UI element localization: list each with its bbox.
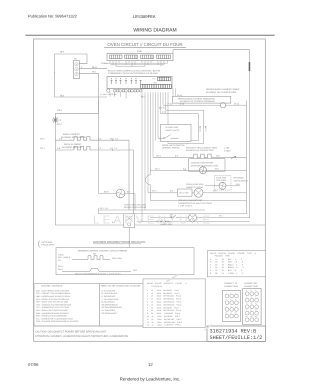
svg-text:OFF (±5%): OFF (±5%) bbox=[112, 257, 122, 260]
cooling fan box (dashed) bbox=[215, 176, 232, 191]
wire from arc to right bus bbox=[151, 185, 247, 201]
bottom bus y225 bbox=[55, 224, 265, 226]
vent fan wires bbox=[99, 194, 135, 211]
svg-text:BAKE ELEMENT: BAKE ELEMENT bbox=[63, 133, 80, 136]
svg-text:ELEMENT DE CUISSON 240V: ELEMENT DE CUISSON 240V bbox=[206, 91, 237, 94]
svg-text:07/06: 07/06 bbox=[28, 362, 39, 367]
svg-text:TOP MILD THERMOSTAT: TOP MILD THERMOSTAT bbox=[178, 199, 203, 202]
svg-text:G: G bbox=[60, 119, 62, 122]
connector grid P1A bbox=[223, 291, 241, 322]
P1B pin group 2 bbox=[125, 55, 138, 59]
EOC board bbox=[107, 76, 172, 88]
EOC output wire bundle bbox=[110, 88, 176, 221]
wire TB mid to EOC bbox=[79, 67, 107, 69]
svg-text:OVEN VENT FAN 120V: OVEN VENT FAN 120V bbox=[124, 203, 147, 206]
svg-text:ELEMENT DE CONVECTION: ELEMENT DE CONVECTION bbox=[186, 149, 214, 152]
svg-text:P1B-1: P1B-1 bbox=[101, 62, 107, 65]
wire color code box bbox=[99, 284, 143, 326]
svg-text:COOL FAN: COOL FAN bbox=[216, 177, 227, 180]
convection motor M1 bbox=[199, 167, 206, 174]
svg-text:BK-17: BK-17 bbox=[204, 126, 207, 132]
convection element coil bbox=[153, 154, 247, 159]
header rule bbox=[25, 34, 274, 36]
oven circuit title underline bbox=[104, 46, 186, 48]
svg-text:W-4 1-4: W-4 1-4 bbox=[110, 137, 119, 140]
svg-text:WARMER DRAWER/TIROIR RECHAUD: WARMER DRAWER/TIROIR RECHAUD bbox=[93, 240, 145, 244]
svg-text:GR GREEN/VERT: GR GREEN/VERT bbox=[102, 312, 118, 315]
svg-text:EOC - ELECTRONIC OVEN CONTROL: EOC - ELECTRONIC OVEN CONTROL bbox=[36, 289, 70, 292]
bus y221.6 bbox=[137, 221, 250, 223]
svg-text:2 16 18 W: 2 16 18 WHT B 2 bbox=[210, 261, 243, 264]
P1B pin group 4 bbox=[157, 55, 171, 59]
svg-text:ON AT 22 PCT/MARCHE A 22 PCT: ON AT 22 PCT/MARCHE A 22 PCT L 170 E (77… bbox=[75, 272, 121, 275]
svg-text:9 30 16GA Y GR/: 9 30 16GA Y GR/VERT P1A-9 bbox=[147, 312, 180, 315]
svg-text:WDE - WARMER DRAWER ELEMENT: WDE - WARMER DRAWER ELEMENT bbox=[36, 312, 70, 315]
wire P1B right to right bus bbox=[173, 50, 250, 218]
right bus second line bbox=[246, 101, 248, 214]
svg-text:6 20 18GA RED/R: 6 20 18GA RED/ROUGE P1A-6 bbox=[147, 303, 181, 306]
svg-text:CONNECT P1: CONNECT P1 bbox=[224, 282, 238, 285]
bake element coil 1 bbox=[74, 137, 90, 141]
svg-text:VENTILATEUR: VENTILATEUR bbox=[234, 179, 249, 182]
svg-text:LAMPE DU FOUR: LAMPE DU FOUR bbox=[186, 186, 204, 189]
svg-text:4 24 16 B: 4 24 16 BRN B D 4 bbox=[210, 266, 243, 269]
TB circle 3 bbox=[75, 72, 78, 75]
wire broil element 2 bbox=[55, 150, 133, 214]
svg-text:11 36 14GA WHT/B: 11 36 14GA WHT/BLANC P1B-2 bbox=[147, 318, 181, 321]
wire bake element 1 bbox=[55, 140, 129, 210]
svg-text:WA NO. COLOR GAUGE/TY: WA NO. COLOR GAUGE/TY COLOR A bbox=[147, 282, 187, 285]
waveform row 1 bbox=[72, 256, 110, 260]
svg-text:BL BLUE/BLEU: BL BLUE/BLEU bbox=[102, 301, 116, 304]
svg-text:TMT - THERMOSTAT HAUT DU FOUR: TMT - THERMOSTAT HAUT DU FOUR bbox=[36, 306, 70, 309]
svg-text:CAUTION: DISCONNECT POWER BEFO: CAUTION: DISCONNECT POWER BEFORE SERVICI… bbox=[35, 330, 107, 333]
svg-text:W-1 4-1: W-1 4-1 bbox=[100, 207, 109, 210]
svg-text:4-5: 4-5 bbox=[170, 190, 174, 193]
svg-text:LIMITE HAUTE: LIMITE HAUTE bbox=[166, 129, 180, 132]
svg-text:12: 12 bbox=[148, 362, 153, 367]
svg-text:Y YELLOW/JAUNE: Y YELLOW/JAUNE bbox=[102, 298, 120, 301]
svg-text:3 16 18GA WHT/B: 3 16 18GA WHT/BLANC P1A-3 bbox=[147, 295, 181, 298]
svg-text:OPTIONAL: OPTIONAL bbox=[234, 177, 245, 180]
optional brace bbox=[38, 241, 40, 248]
svg-text:316271934 REV:B: 316271934 REV:B bbox=[210, 329, 257, 335]
watermark slash 1 bbox=[166, 275, 178, 283]
wire TB bottom down right rail bbox=[79, 73, 99, 113]
svg-text:2: 2 bbox=[54, 72, 55, 75]
svg-text:W.E. (+5%) E: W.E. (+5%) E bbox=[58, 256, 71, 259]
svg-text:H ELE: H ELE bbox=[58, 254, 64, 257]
svg-text:LEGEND / LEGENDE: LEGEND / LEGENDE bbox=[41, 284, 63, 287]
sheet info box bbox=[207, 326, 266, 341]
wire hidden bake bbox=[163, 104, 247, 106]
svg-text:BK-15: BK-15 bbox=[199, 126, 202, 132]
svg-text:RELAIS VENTILATEUR: RELAIS VENTILATEUR bbox=[124, 206, 147, 209]
svg-text:LO: LO bbox=[58, 259, 61, 262]
svg-text:Rly B: Rly B bbox=[58, 268, 63, 271]
svg-text:8 24 16GA WHT/B: 8 24 16GA WHT/BLANC P1A-8 bbox=[147, 309, 181, 312]
legend band bottom rule bbox=[34, 325, 143, 327]
svg-text:THERMOSTAT DE HAUT DU FOUR: THERMOSTAT DE HAUT DU FOUR bbox=[178, 202, 212, 205]
warmer drawer box bbox=[56, 248, 194, 275]
svg-text:POUCES GA: POUCES GA bbox=[147, 285, 163, 288]
svg-text:W.E.L.: W.E.L. bbox=[58, 265, 64, 268]
svg-text:HIDDEN BAKE ELEMENT 2585/2225W: HIDDEN BAKE ELEMENT 2585/2225W bbox=[178, 97, 215, 100]
svg-text:HIDDEN BAKE ELEMENT 2585W: HIDDEN BAKE ELEMENT 2585W bbox=[206, 88, 240, 91]
svg-text:WIRE COLOR CODE/CODE COULEUR: WIRE COLOR CODE/CODE COULEUR bbox=[101, 284, 141, 287]
wire gauge table right bbox=[208, 251, 266, 277]
P1B pin group 3 bbox=[141, 55, 154, 59]
svg-text:DLS - DOOR LATCH SWITCH/RELAIS: DLS - DOOR LATCH SWITCH/RELAIS bbox=[36, 298, 70, 301]
hidden bake element label box bbox=[172, 96, 231, 103]
svg-text:CFE - CONVECT FAN ELEMENT/RELA: CFE - CONVECT FAN ELEMENT/RELAY bbox=[36, 292, 72, 295]
svg-text:GY GRAY/GRIS: GY GRAY/GRIS bbox=[102, 309, 116, 312]
svg-text:OV-2: OV-2 bbox=[152, 190, 157, 193]
svg-text:4 16 18GA WHT/B: 4 16 18GA WHT/BLANC P1A-4 bbox=[147, 298, 181, 301]
wire junction arrow bbox=[231, 156, 236, 158]
svg-text:ELEMENT DE CUISSON DISSIMULE: ELEMENT DE CUISSON DISSIMULE bbox=[180, 100, 216, 103]
waveform row 2 bbox=[62, 268, 131, 271]
oven vent fan motor bbox=[116, 189, 125, 198]
hi-limit switch contact bbox=[165, 135, 179, 139]
svg-text:ELEMENT DE CUISSON: ELEMENT DE CUISSON bbox=[61, 136, 86, 139]
svg-text:B BLACK/NOIR: B BLACK/NOIR bbox=[102, 289, 116, 292]
svg-text:BROIL ELEMENT: BROIL ELEMENT bbox=[64, 143, 82, 146]
low oven lamp bbox=[189, 214, 197, 222]
svg-text:WIRING DIAGRAM: WIRING DIAGRAM bbox=[133, 28, 176, 34]
svg-text:6 36 14 Y: 6 36 14 Y GRN F 6 bbox=[210, 272, 243, 275]
svg-text:OR ORANGE/ORANGE: OR ORANGE/ORANGE bbox=[102, 306, 123, 309]
svg-text:12 36 14GA RED/R: 12 36 14GA RED/ROUGE P1B-3 bbox=[147, 321, 182, 324]
svg-text:ELECT OVEN CONTROL (EOC) OVEN: ELECT OVEN CONTROL (EOC) OVEN REL. BD P/… bbox=[108, 70, 160, 73]
svg-text:TB-3: TB-3 bbox=[60, 51, 66, 54]
svg-text:13 42 14GA Y GR/: 13 42 14GA Y GR/VERT P1B-4 bbox=[147, 324, 181, 327]
svg-text:OVEN CIRCUIT // CIRCUIT DU FOU: OVEN CIRCUIT // CIRCUIT DU FOUR bbox=[107, 42, 182, 47]
svg-text:R RED/ROUGE: R RED/ROUGE bbox=[102, 295, 117, 298]
bus y210 bbox=[99, 209, 205, 211]
thermostat wire bbox=[150, 217, 250, 219]
EOC relay coils bbox=[110, 80, 141, 84]
harness loop arc bbox=[146, 175, 151, 185]
right drop wires x198/x203 bbox=[161, 110, 204, 143]
svg-text:CFM - COOLING FAN MOTOR/MOTEUR: CFM - COOLING FAN MOTOR/MOTEUR bbox=[36, 303, 72, 306]
svg-text:5 30 16 B: 5 30 16 BLU E 5 bbox=[210, 269, 242, 272]
legend entries bbox=[36, 289, 79, 323]
svg-text:CONNECTOR: CONNECTOR bbox=[244, 282, 257, 285]
svg-text:BR BROWN/BRUN: BR BROWN/BRUN bbox=[102, 303, 119, 306]
hi-limit thermostat box bbox=[161, 125, 192, 142]
svg-text:R-2 1-2: R-2 1-2 bbox=[110, 147, 118, 150]
svg-text:L 240: L 240 bbox=[224, 147, 230, 150]
svg-text:HBE - HIDDEN BAKE ELEMENT RELA: HBE - HIDDEN BAKE ELEMENT RELAY bbox=[36, 295, 71, 298]
svg-text:BK-1: BK-1 bbox=[141, 95, 146, 98]
svg-text:W WHITE/BLANC: W WHITE/BLANC bbox=[102, 292, 118, 295]
svg-text:DOOR LATCH SWITCH: DOOR LATCH SWITCH bbox=[162, 144, 185, 147]
svg-text:LEADVENTURE: LEADVENTURE bbox=[93, 215, 213, 227]
svg-text:TB: TB bbox=[74, 57, 77, 60]
oven light lamp bbox=[194, 188, 203, 197]
svg-text:1 14 18 B: 1 14 18 BLK A 1 bbox=[210, 258, 242, 261]
legend box left bbox=[34, 284, 99, 326]
svg-text:TBK - TERMINAL BLOCK/BORNIER: TBK - TERMINAL BLOCK/BORNIER bbox=[36, 315, 68, 318]
svg-text:Publication No: 5995471322: Publication No: 5995471322 bbox=[28, 14, 77, 19]
wire TB feed top bbox=[55, 54, 88, 97]
svg-text:WARMER DRAWER CONTROL CIRCUIT/: WARMER DRAWER CONTROL CIRCUIT/TIMING bbox=[78, 249, 127, 252]
svg-text:Rendered by LeadVenture, Inc.: Rendered by LeadVenture, Inc. bbox=[120, 376, 181, 381]
svg-text:P1B: P1B bbox=[137, 50, 142, 53]
svg-text:COMMANDE FOUR ELECTRONIQUE DE: COMMANDE FOUR ELECTRONIQUE DE RELAIS bbox=[108, 72, 158, 75]
hidden bake element circle bbox=[220, 103, 225, 108]
convection motor label box bbox=[189, 159, 225, 172]
svg-text:VERROU. PORTE: VERROU. PORTE bbox=[162, 147, 180, 150]
door light switch box with X bbox=[124, 214, 135, 228]
svg-text:10 30 14GA BLK/N: 10 30 14GA BLK/NOIR P1B-1 bbox=[147, 315, 180, 318]
svg-text:GR-2: GR-2 bbox=[57, 123, 63, 126]
P1B pin group 1 bbox=[110, 55, 171, 59]
svg-text:ELEMENT DU GRIL: ELEMENT DU GRIL bbox=[62, 146, 83, 149]
svg-text:GR-1: GR-1 bbox=[57, 109, 63, 112]
svg-text:CONNECTEUR: CONNECTEUR bbox=[244, 285, 259, 288]
svg-text:P## - CONNECTOR PLUG/CONNECTEU: P## - CONNECTOR PLUG/CONNECTEUR bbox=[36, 317, 73, 320]
bus y213.8 bbox=[99, 213, 247, 215]
wire left horizontal y113 bbox=[55, 112, 98, 114]
svg-text:WA NO LENGTH GAUGE C: WA NO LENGTH GAUGE COLOR TYPE A bbox=[210, 252, 257, 255]
svg-text:HI LIMIT 550F: HI LIMIT 550F bbox=[166, 126, 180, 129]
terminal block TB bbox=[74, 57, 80, 78]
svg-text:POUCES TYPE: POUCES TYPE bbox=[210, 255, 230, 258]
right bus vertical wire label bbox=[249, 62, 251, 71]
svg-text:OVF - OVEN VENT FAN RELAY 120V: OVF - OVEN VENT FAN RELAY 120V bbox=[36, 301, 69, 304]
svg-text:OPTIONAL: OPTIONAL bbox=[42, 241, 54, 244]
svg-text:120V 60HZ: 120V 60HZ bbox=[216, 179, 227, 182]
legend band divider boxes bbox=[34, 284, 144, 326]
svg-text:7 24 16GA BLK/N: 7 24 16GA BLK/NOIR P1A-7 bbox=[147, 306, 179, 309]
wire table left bbox=[143, 279, 205, 328]
svg-text:E 240V: E 240V bbox=[224, 149, 231, 152]
wire left horizontal y97 bbox=[55, 96, 108, 98]
TB circle 2 bbox=[75, 68, 78, 71]
ground star symbol bbox=[52, 117, 59, 124]
svg-text:OLS - OVEN LIGHT SWITCH/LAMPE: OLS - OVEN LIGHT SWITCH/LAMPE bbox=[36, 309, 69, 312]
svg-text:TB-1: TB-1 bbox=[40, 147, 46, 150]
EOC bottom pin row bbox=[107, 89, 142, 92]
thermostat symbol bbox=[171, 214, 181, 218]
broil element coil 2 bbox=[74, 146, 90, 150]
svg-text:CONVECT FAN ELEMENT 350W: CONVECT FAN ELEMENT 350W bbox=[186, 146, 217, 149]
svg-text:BK-6: BK-6 bbox=[92, 66, 98, 69]
svg-text:CONNECTEUR: CONNECTEUR bbox=[224, 285, 239, 288]
diagram outer frame bbox=[34, 39, 266, 341]
wire to warmer section bbox=[128, 228, 130, 248]
connector P1B strip bbox=[107, 50, 173, 60]
svg-text:SHEET/FEUILLE:1/2: SHEET/FEUILLE:1/2 bbox=[210, 335, 263, 341]
right bus hooks bbox=[98, 208, 100, 214]
wire left rail down to bottom bus bbox=[54, 113, 56, 225]
svg-text:TB-2: TB-2 bbox=[40, 137, 46, 140]
cooling fan wires bbox=[205, 185, 240, 187]
svg-text:TB-4: TB-4 bbox=[60, 94, 66, 97]
svg-text:LES389FEA: LES389FEA bbox=[133, 14, 156, 19]
svg-text:5 20 18GA RED/R: 5 20 18GA RED/ROUGE P1A-5 bbox=[147, 301, 181, 304]
svg-text:1 14 18GA BLK/N: 1 14 18GA BLK/NOIR P1A-1 bbox=[147, 289, 179, 292]
svg-text:L1 BK-3 W-10 BK: L1 BK-3 W-10 BK bbox=[100, 93, 117, 96]
svg-text:BK-16: BK-16 bbox=[159, 107, 165, 110]
svg-text:CONVECTION MOTOR: CONVECTION MOTOR bbox=[191, 162, 214, 165]
connector grid P1B bbox=[243, 289, 261, 325]
svg-text:2 14 18GA BLK/N: 2 14 18GA BLK/NOIR P1A-2 bbox=[147, 292, 179, 295]
watermark slash 2 bbox=[204, 325, 212, 331]
svg-text:GRD - CHASSIS GROUND/MASSE DU: GRD - CHASSIS GROUND/MASSE DU CHASSIS bbox=[36, 320, 79, 323]
TB circle 1 bbox=[75, 63, 78, 66]
P1B pin drop wires bbox=[105, 61, 168, 67]
svg-text:4-16: 4-16 bbox=[162, 111, 167, 114]
bus wires lower bbox=[55, 208, 265, 225]
svg-text:L 170F (77C) E: L 170F (77C) E bbox=[178, 204, 193, 207]
wire color entries bbox=[102, 289, 123, 314]
oven light switch box bbox=[178, 189, 193, 196]
node junction x98.6 bbox=[98, 99, 100, 142]
svg-text:FACULTATIF: FACULTATIF bbox=[42, 244, 55, 247]
svg-text:OV LT SW: OV LT SW bbox=[179, 191, 188, 194]
svg-text:OVEN LIGHT 40W: OVEN LIGHT 40W bbox=[186, 183, 203, 186]
svg-text:3 20 18 R: 3 20 18 RED A C 3 bbox=[210, 263, 243, 266]
cooling fan motor bbox=[219, 182, 226, 189]
svg-text:ATTENTION: COUPEZ L'ALIMENTATI: ATTENTION: COUPEZ L'ALIMENTATION AVANT D… bbox=[35, 335, 129, 338]
